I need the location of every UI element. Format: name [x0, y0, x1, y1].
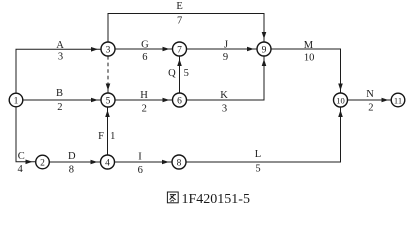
svg-text:5: 5 [106, 96, 111, 106]
svg-text:9: 9 [223, 52, 228, 63]
wire activity E (3-9) [108, 14, 264, 43]
wire activity A (1-3) [16, 49, 101, 93]
svg-text:6: 6 [142, 52, 147, 63]
wire activity N (10-11) [348, 99, 392, 101]
arrowhead B into node 5 [91, 98, 98, 103]
svg-text:5: 5 [255, 163, 260, 174]
arrowhead K into node 9 [262, 59, 267, 66]
arrowhead N into node 11 [382, 98, 389, 103]
svg-text:K: K [220, 90, 228, 101]
label C and duration 4 [17, 151, 24, 175]
svg-text:L: L [255, 149, 261, 160]
wire activity J (7-9) [187, 48, 257, 50]
node 11 [391, 93, 405, 107]
arrowhead M into node 10 [338, 84, 343, 91]
svg-text:3: 3 [58, 52, 63, 63]
label I and duration 6 [138, 151, 143, 175]
arrowhead I into node 8 [162, 160, 169, 165]
wire activity M (9-10) [271, 49, 341, 93]
svg-text:J: J [224, 40, 228, 51]
svg-text:2: 2 [40, 158, 45, 168]
wire activity L (8-10) [186, 108, 341, 163]
svg-text:9: 9 [262, 45, 267, 55]
arrowhead dummy into node 5 [106, 84, 111, 91]
node 4 [101, 155, 115, 169]
arrowhead G into node 7 [163, 47, 170, 52]
svg-text:7: 7 [177, 45, 182, 55]
node 10 [334, 93, 348, 107]
label F and duration 1 [98, 131, 115, 142]
arrowhead F into node 5 [105, 110, 110, 117]
label K and duration 3 [220, 90, 228, 115]
wire activity C (1-2) [16, 107, 35, 162]
svg-text:D: D [68, 151, 76, 162]
svg-text:5: 5 [184, 68, 189, 79]
svg-text:1: 1 [14, 96, 19, 106]
node 3 [101, 42, 115, 56]
label N and duration 2 [366, 89, 374, 113]
svg-text:F: F [98, 131, 104, 142]
svg-text:6: 6 [138, 165, 143, 176]
svg-text:8: 8 [69, 165, 74, 176]
arrowhead L into node 10 [338, 110, 343, 117]
svg-text:G: G [141, 39, 149, 50]
label A and duration 3 [56, 40, 64, 63]
wire activity G (3-7) [115, 48, 172, 50]
label Q and duration 5 [168, 68, 189, 79]
svg-text:C: C [18, 151, 25, 162]
svg-text:E: E [176, 1, 182, 12]
arrowhead E into node 9 [262, 32, 267, 39]
caption chinese character tu (figure) [167, 192, 178, 203]
svg-text:10: 10 [304, 53, 315, 64]
svg-text:1F420151-5: 1F420151-5 [182, 192, 250, 207]
svg-text:2: 2 [368, 103, 373, 114]
arrowhead H into node 6 [163, 98, 170, 103]
arrowhead D into node 4 [91, 160, 98, 165]
wire activity Q (6-7) [179, 57, 181, 94]
node 2 [36, 155, 50, 169]
svg-text:1: 1 [110, 131, 115, 142]
node 5 [101, 93, 115, 107]
svg-text:11: 11 [394, 95, 402, 105]
svg-text:B: B [56, 88, 63, 99]
label L and duration 5 [255, 149, 261, 175]
arrowhead J into node 9 [247, 47, 254, 52]
wire activity D (2-4) [50, 161, 101, 163]
arrowhead A into node 3 [91, 47, 98, 52]
svg-text:2: 2 [57, 102, 62, 113]
svg-text:Q: Q [168, 68, 176, 79]
label D and duration 8 [68, 151, 76, 176]
label E and duration 7 [176, 1, 182, 26]
svg-text:H: H [140, 90, 148, 101]
label B and duration 2 [56, 88, 63, 113]
label J and duration 9 [223, 40, 228, 63]
node 1 [9, 93, 23, 107]
svg-text:I: I [138, 151, 142, 162]
svg-text:3: 3 [106, 45, 111, 55]
label M and duration 10 [304, 40, 315, 64]
svg-text:4: 4 [105, 158, 110, 168]
svg-text:6: 6 [177, 96, 182, 106]
svg-text:4: 4 [17, 164, 23, 175]
wire activity H (5-6) [115, 99, 172, 101]
wire activity I (4-8) [115, 161, 172, 163]
wire activity K (6-9) [187, 57, 265, 101]
caption figure number text [182, 192, 250, 207]
svg-text:10: 10 [336, 95, 345, 105]
svg-text:8: 8 [177, 158, 182, 168]
node 9 [257, 42, 271, 56]
node 8 [172, 155, 186, 169]
wire activity B (1-5) [23, 99, 101, 101]
arrowhead Q into node 7 [177, 59, 182, 66]
label H and duration 2 [140, 90, 148, 115]
node 6 [173, 93, 187, 107]
svg-text:2: 2 [142, 103, 147, 114]
dashed dummy arrow (3-5) [107, 56, 109, 93]
svg-text:3: 3 [222, 104, 227, 115]
svg-text:7: 7 [177, 15, 182, 26]
arrowhead C into node 2 [26, 160, 33, 165]
wire activity F (4-5) [107, 108, 109, 156]
node 7 [173, 42, 187, 56]
label G and duration 6 [141, 39, 149, 63]
svg-text:N: N [366, 89, 374, 100]
svg-text:A: A [56, 40, 64, 51]
svg-text:M: M [304, 40, 314, 51]
